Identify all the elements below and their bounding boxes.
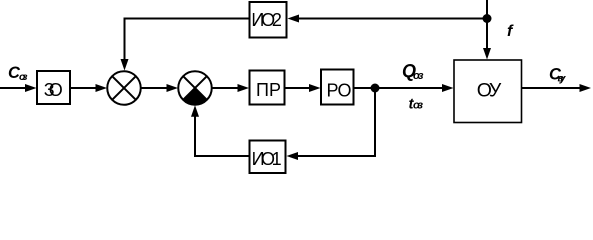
svg-text:ИО2: ИО2: [251, 10, 282, 30]
svg-text:оз: оз: [413, 100, 423, 112]
svg-text:ОУ: ОУ: [477, 80, 502, 102]
svg-text:оз: оз: [413, 70, 424, 82]
svg-text:оз: оз: [19, 71, 28, 83]
svg-text:ПР: ПР: [256, 80, 281, 100]
svg-text:РО: РО: [327, 80, 352, 100]
svg-text:ИО1: ИО1: [252, 149, 282, 169]
svg-text:ЗО: ЗО: [44, 80, 63, 100]
svg-text:ву: ву: [558, 73, 567, 85]
